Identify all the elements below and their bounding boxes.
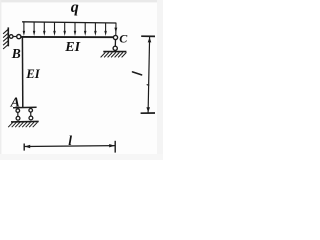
load arrow 7 bbox=[84, 23, 87, 36]
corner hinge circle at top of column bbox=[17, 35, 21, 39]
svg-text:B: B bbox=[11, 46, 21, 61]
A left link top circle bbox=[16, 109, 20, 113]
support link under C bbox=[114, 40, 116, 47]
svg-text:q: q bbox=[71, 0, 79, 16]
A left link bottom circle bbox=[16, 116, 20, 120]
load arrow 4 bbox=[53, 22, 56, 36]
wall (left fixed surface) bbox=[3, 27, 8, 49]
bottom dimension line (span l) bbox=[24, 141, 115, 153]
load arrow 10 (at end of load line) bbox=[114, 23, 117, 35]
load arrow 1 bbox=[23, 22, 26, 36]
load arrow 9 bbox=[104, 23, 107, 36]
load arrow 6 bbox=[74, 23, 77, 37]
load arrow 3 bbox=[43, 22, 46, 36]
load arrow 2 bbox=[33, 22, 36, 36]
horizontal link support at B top (wall hinge) bbox=[9, 35, 13, 39]
hinge C circle bbox=[113, 35, 117, 39]
right dimension line (height l) bbox=[141, 36, 155, 113]
load arrow 5 bbox=[63, 22, 65, 36]
ground hatching under C bbox=[101, 52, 127, 57]
svg-text:C: C bbox=[119, 31, 128, 45]
beam member (top, EI) bbox=[21, 36, 114, 38]
ground hatching under A bbox=[8, 122, 37, 127]
dash label near right dimension bbox=[133, 72, 142, 75]
A right link bottom circle bbox=[29, 116, 33, 120]
svg-text:EI: EI bbox=[64, 40, 80, 55]
scan background bbox=[0, 0, 163, 160]
small nub on right dimension line bbox=[147, 84, 149, 86]
ground line under C bbox=[103, 51, 126, 53]
wire link bar bbox=[13, 36, 17, 38]
distributed load line q bbox=[22, 22, 116, 23]
svg-text:l: l bbox=[68, 133, 72, 148]
ground line under A bbox=[11, 120, 39, 123]
support bar at A bbox=[13, 106, 37, 108]
A left link stem bbox=[17, 112, 19, 116]
A right link stem bbox=[30, 112, 32, 116]
svg-text:EI: EI bbox=[25, 67, 41, 81]
support roller circle under C bbox=[113, 46, 117, 50]
column member (left, EI) bbox=[21, 37, 23, 107]
load arrow 8 bbox=[94, 23, 97, 36]
A right link top circle bbox=[29, 109, 33, 113]
